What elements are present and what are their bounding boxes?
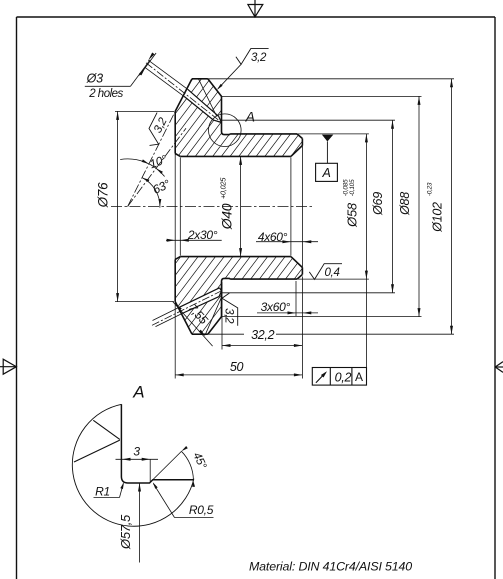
- svg-text:-0,23: -0,23: [427, 182, 434, 196]
- svg-text:Ø102: Ø102: [431, 202, 445, 233]
- svg-text:50: 50: [230, 360, 244, 374]
- svg-text:A: A: [355, 370, 363, 384]
- svg-text:-0,105: -0,105: [349, 179, 356, 196]
- svg-text:R1: R1: [95, 485, 110, 499]
- svg-text:Ø76: Ø76: [96, 182, 111, 208]
- svg-text:4x60°: 4x60°: [258, 230, 288, 244]
- svg-text:Material: DIN 41Cr4/AISI 5140: Material: DIN 41Cr4/AISI 5140: [249, 560, 412, 574]
- svg-text:0,4: 0,4: [324, 267, 339, 279]
- svg-text:+0,025: +0,025: [219, 177, 228, 199]
- svg-text:A: A: [132, 382, 144, 401]
- svg-text:2 holes: 2 holes: [88, 88, 123, 100]
- svg-text:A: A: [321, 166, 330, 180]
- svg-text:2x30°: 2x30°: [187, 228, 218, 242]
- svg-text:Ø88: Ø88: [398, 192, 412, 216]
- svg-text:Ø69: Ø69: [371, 192, 385, 216]
- svg-text:R0,5: R0,5: [189, 503, 214, 517]
- svg-text:Ø57,5: Ø57,5: [118, 514, 133, 550]
- svg-text:A: A: [245, 108, 255, 124]
- svg-text:Ø58: Ø58: [344, 202, 359, 228]
- svg-text:3: 3: [133, 445, 140, 459]
- svg-text:3,2: 3,2: [223, 308, 235, 324]
- svg-text:3x60°: 3x60°: [261, 300, 291, 314]
- svg-text:0,2: 0,2: [335, 370, 352, 384]
- svg-text:Ø3: Ø3: [86, 72, 103, 86]
- svg-text:Ø40: Ø40: [219, 203, 235, 230]
- svg-text:3,2: 3,2: [251, 52, 267, 64]
- svg-text:32,2: 32,2: [251, 328, 274, 342]
